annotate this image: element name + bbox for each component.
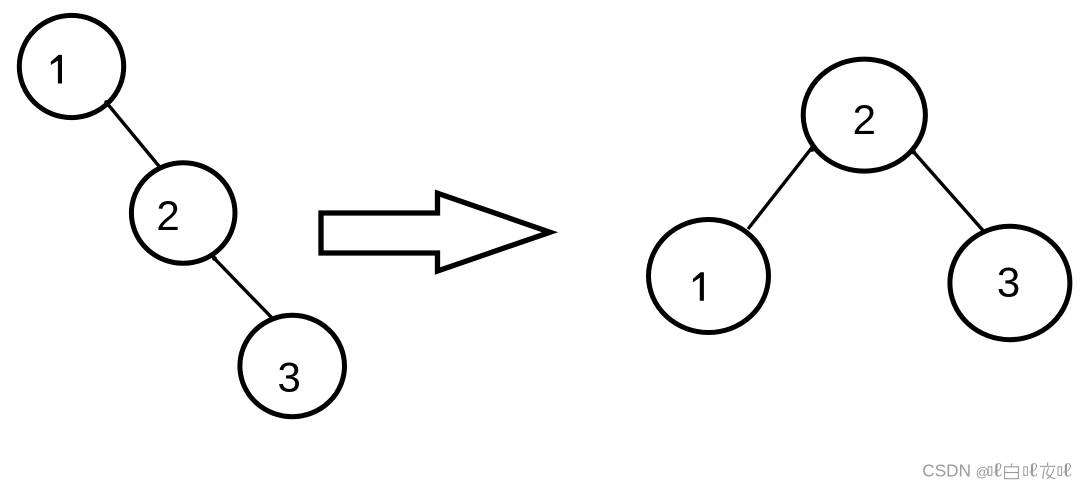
watermark: glyph bai — [1005, 463, 1019, 478]
node 1 (left tree) — [19, 15, 123, 117]
wire: edge right tree node2-node1 — [748, 145, 814, 229]
junction nub at node1-edge (left tree) — [104, 100, 109, 105]
node 3 (left tree) — [240, 315, 345, 416]
wire: edge left tree node2-node3 — [210, 254, 275, 321]
svg-text:3: 3 — [278, 354, 301, 401]
node 2 (left tree) — [131, 163, 235, 264]
svg-text:@: @ — [976, 464, 989, 479]
svg-text:3: 3 — [997, 259, 1020, 306]
node 2 (right tree, root) — [803, 59, 925, 171]
label digit 1 (right tree) — [693, 272, 704, 301]
watermark: tofu box 1 — [988, 467, 992, 476]
junction nub at root right attachment (right tree) — [911, 150, 916, 155]
svg-text:ℓ: ℓ — [1029, 459, 1038, 480]
svg-text:CSDN: CSDN — [922, 460, 971, 480]
junction nub at root left attachment (right tree) — [810, 147, 815, 152]
wire: edge right tree node2-node3 — [911, 149, 987, 235]
wire: edge left tree node1-node2 — [101, 96, 163, 171]
label digit 1 (left tree) — [51, 55, 62, 84]
watermark: tofu box 3 — [1058, 467, 1062, 476]
block arrow (rotation indicator) — [321, 193, 550, 271]
svg-text:ℓ: ℓ — [993, 459, 1002, 480]
watermark: tofu box 2 — [1024, 467, 1028, 476]
watermark: glyph ye — [1040, 463, 1056, 480]
svg-text:2: 2 — [156, 192, 179, 239]
node 1 (right tree) — [649, 220, 769, 333]
node 3 (right tree) — [950, 226, 1070, 339]
svg-text:ℓ: ℓ — [1063, 459, 1072, 480]
junction nub at node2-edge (left tree) — [212, 256, 217, 261]
svg-text:2: 2 — [853, 96, 876, 143]
